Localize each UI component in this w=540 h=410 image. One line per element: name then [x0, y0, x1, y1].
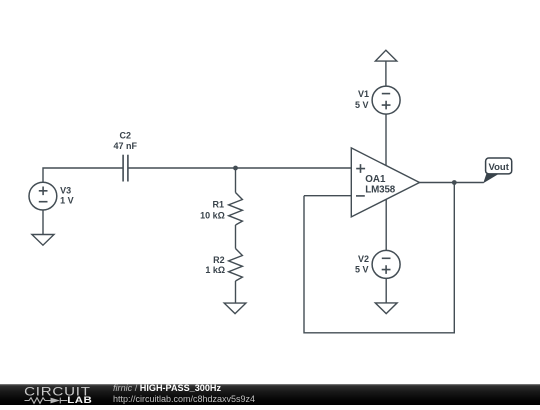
- ground (below V2): [375, 303, 397, 314]
- source V1: [372, 86, 400, 114]
- wire main right: capacitor to op-amp +in: [128, 167, 351, 169]
- svg-text:firnic / HIGH-PASS_300Hz: firnic / HIGH-PASS_300Hz: [113, 383, 221, 393]
- wire feedback loop: [304, 183, 454, 333]
- CircuitLab logo wordmark: [24, 385, 91, 398]
- wire output: [419, 182, 483, 184]
- CircuitLab logo LAB: [67, 396, 92, 405]
- op-amp OA1 body: [351, 148, 419, 217]
- ground (below V3): [32, 235, 54, 246]
- svg-text:R1: R1: [212, 199, 224, 209]
- source V3: [29, 182, 57, 210]
- wire R2 to ground: [235, 281, 237, 303]
- svg-text:5 V: 5 V: [355, 100, 369, 110]
- wire R1 top: [235, 168, 237, 193]
- node junction (cap/R1): [233, 166, 238, 171]
- svg-text:C2: C2: [120, 131, 132, 141]
- wire op-amp V- to V2: [385, 199, 387, 250]
- resistor R1: [229, 193, 243, 226]
- wire main left: V3 top corner to capacitor: [43, 168, 123, 182]
- Vout flag box: [486, 158, 512, 174]
- resistor R2: [229, 249, 243, 282]
- wire V3 to ground: [42, 210, 44, 235]
- svg-text:47 nF: 47 nF: [114, 141, 138, 151]
- wire V1 to op-amp V+: [385, 114, 387, 166]
- node junction (output): [452, 180, 457, 185]
- wire R1-R2: [235, 225, 237, 249]
- svg-text:V1: V1: [358, 89, 369, 99]
- ground (below R2): [224, 303, 246, 314]
- svg-text:V2: V2: [358, 254, 369, 264]
- svg-text:5 V: 5 V: [355, 264, 369, 274]
- wire V2 to ground: [385, 278, 387, 303]
- svg-text:OA1: OA1: [365, 174, 386, 185]
- svg-text:R2: R2: [213, 255, 225, 265]
- wire inverting input: [304, 195, 351, 197]
- svg-text:Vout: Vout: [488, 162, 509, 173]
- power flag (above V1): [375, 50, 396, 61]
- wire power flag to V1: [385, 61, 387, 86]
- CircuitLab logo schematic squiggle: [25, 398, 68, 404]
- svg-text:LAB: LAB: [67, 396, 92, 405]
- capacitor C2: [123, 155, 128, 182]
- svg-text:V3: V3: [60, 186, 71, 196]
- svg-text:LM358: LM358: [365, 184, 395, 195]
- svg-text:1 kΩ: 1 kΩ: [205, 265, 225, 275]
- Vout flag pointer: [483, 174, 499, 184]
- svg-text:10 kΩ: 10 kΩ: [200, 211, 225, 221]
- svg-text:1 V: 1 V: [60, 196, 74, 206]
- svg-text:http://circuitlab.com/c8hdzaxv: http://circuitlab.com/c8hdzaxv5s9z4: [113, 394, 255, 404]
- source V2: [372, 250, 400, 278]
